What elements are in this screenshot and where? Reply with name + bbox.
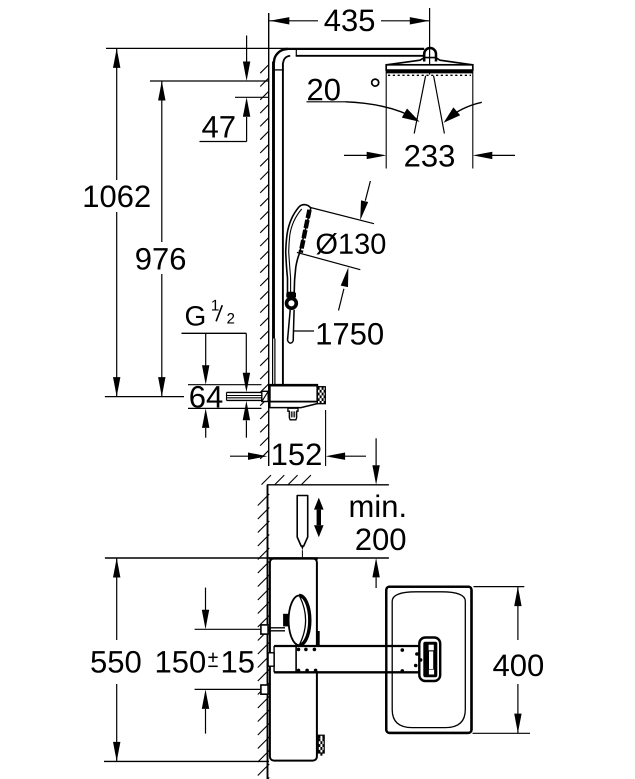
updown arrow icon xyxy=(314,498,324,538)
plan mixer body xyxy=(269,558,318,760)
plan beam screws xyxy=(297,648,423,673)
head shower joint loop xyxy=(424,48,436,61)
label 1750 leader xyxy=(294,330,315,332)
shower arm top line xyxy=(287,48,424,50)
diverter knob xyxy=(288,408,298,420)
wall hatching (side view) xyxy=(260,65,269,459)
reference centerline at supply height xyxy=(105,396,184,398)
plan head shower outer xyxy=(386,587,471,733)
dimension D130 top arrow xyxy=(360,181,370,220)
tool icon xyxy=(297,496,308,558)
dimension 152 extension right xyxy=(325,410,327,466)
plan arm beam xyxy=(274,645,421,673)
dimension 435 line xyxy=(269,20,429,22)
wall fitting square upper xyxy=(261,625,268,634)
dimension 550 text xyxy=(91,651,140,673)
nipple OD arrows xyxy=(243,373,250,438)
mixer body xyxy=(269,385,318,401)
label G half bracket xyxy=(182,333,247,373)
mixer knurled cap xyxy=(317,387,325,404)
dimension 1062 line xyxy=(116,48,118,396)
plan beam wall block xyxy=(268,653,274,666)
spray curved arrow right xyxy=(444,102,482,123)
extension line B xyxy=(150,80,269,82)
dimension 152 text xyxy=(273,443,321,465)
label G half text xyxy=(186,300,234,326)
dimension 400 arrows xyxy=(514,587,521,734)
plan hand shower ellipse xyxy=(289,596,310,646)
dimension 400 line xyxy=(517,587,519,734)
label 20 deg text xyxy=(308,79,379,101)
dimension 233 extension lines xyxy=(386,64,473,169)
hand shower spray face xyxy=(301,210,310,253)
dimension 64 lines xyxy=(188,385,262,409)
dimension 152 arrows xyxy=(230,453,366,460)
dimension 150 lines xyxy=(195,629,266,689)
pipe elbow outer xyxy=(274,49,288,63)
dimension 550 arrows xyxy=(113,558,120,761)
dimension 435 extension line xyxy=(429,8,431,75)
plan head shower outer redraw xyxy=(386,587,471,733)
plan top reference line xyxy=(105,557,389,559)
pipe elbow inner xyxy=(283,56,290,63)
head shower rim xyxy=(386,65,473,72)
supply nipple xyxy=(227,392,263,400)
plan head mount xyxy=(419,638,440,682)
supply nipple end box xyxy=(262,391,268,401)
dimension min200 arrows xyxy=(372,438,379,588)
mixer bottom shell xyxy=(270,402,318,408)
hand shower inner contour xyxy=(289,209,302,292)
plan wall top hatching xyxy=(262,475,311,485)
head shower dome xyxy=(387,58,473,65)
shower arm bottom line xyxy=(296,55,424,57)
wall fitting square lower xyxy=(261,685,268,694)
dimension 47 arrows xyxy=(200,36,251,142)
dimension 1062 text xyxy=(85,185,150,207)
slider collar xyxy=(286,292,296,297)
dimension 435 text xyxy=(324,9,374,31)
dimension 400 extension lines xyxy=(473,587,531,734)
plan diverter knurl xyxy=(318,735,324,756)
label min 200 text xyxy=(351,495,406,551)
dimension 976 text xyxy=(136,248,185,270)
dimension D130 bottom arrow xyxy=(339,267,349,310)
dimension 435 arrows xyxy=(270,17,430,24)
dimension 233 text xyxy=(405,145,454,167)
pipe seam vertical xyxy=(295,48,297,57)
dimension D130 top line xyxy=(311,208,375,224)
dimension D130 text xyxy=(316,233,385,255)
spray line right xyxy=(434,76,445,134)
slider knob xyxy=(287,298,297,308)
dimension 976 arrows xyxy=(158,81,165,397)
plan wall top line xyxy=(267,484,389,486)
dimension 550 line xyxy=(116,558,118,761)
hand shower body xyxy=(286,205,311,293)
dimension 64 text xyxy=(190,386,222,408)
pipe seam horizontal xyxy=(273,69,284,71)
dimension 233 arrows xyxy=(344,152,515,159)
plan rail boss xyxy=(317,631,320,646)
dimension 976 line xyxy=(161,81,163,397)
label 20 deg leader xyxy=(307,102,420,122)
rail right edge xyxy=(282,63,284,385)
dimension 150 text xyxy=(157,651,254,673)
dimension 47 text xyxy=(202,116,234,137)
label 1750 text xyxy=(318,323,383,345)
dimension D130 bottom line xyxy=(297,252,360,269)
dimension 400 text xyxy=(493,654,543,676)
rail left edge xyxy=(273,62,275,385)
plan holder stem xyxy=(268,628,285,631)
plan wall line xyxy=(267,485,269,779)
dimension 150 arrows xyxy=(202,588,209,734)
spray line left xyxy=(414,76,425,134)
head shower spray face dotted xyxy=(388,74,471,76)
extension line A at arm top xyxy=(106,47,288,49)
shower hose xyxy=(288,310,295,343)
plan bottom reference line xyxy=(104,760,269,762)
extension line C xyxy=(235,96,269,98)
dimension 64 arrows xyxy=(202,333,209,437)
wall line (side view) xyxy=(268,13,270,466)
dimension 1062 arrows xyxy=(113,48,120,396)
plan wall hatching xyxy=(258,494,270,779)
plan holder clamp xyxy=(283,614,289,627)
